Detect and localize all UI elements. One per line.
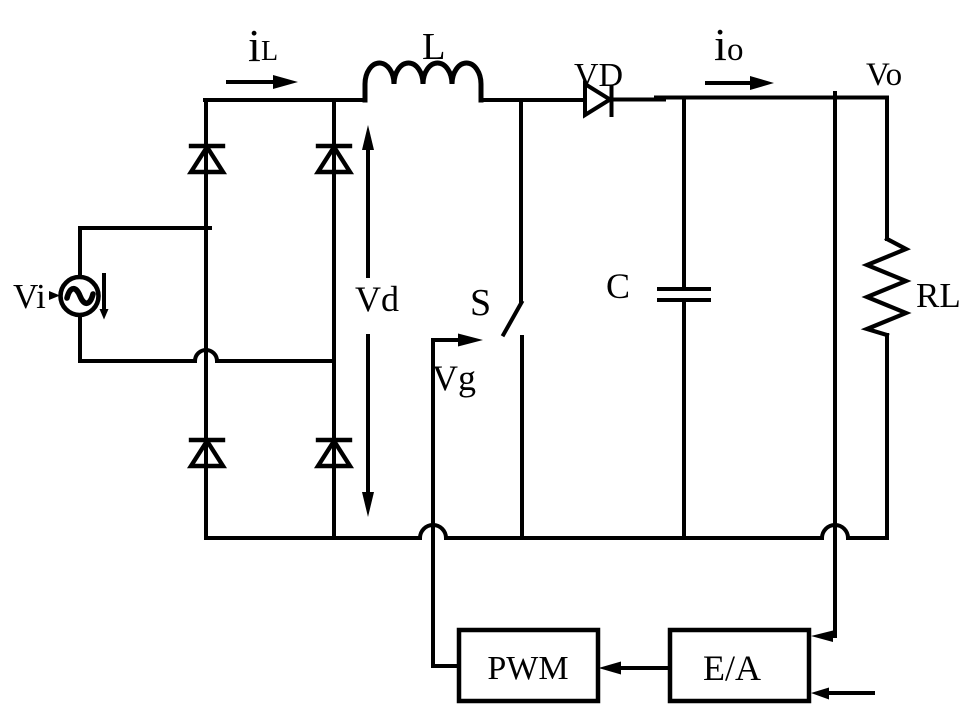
wire feedback from Vo node	[832, 93, 835, 636]
svg-text:VD: VD	[574, 57, 623, 94]
ac source Vi	[61, 277, 99, 315]
voltage arrow Vd shaft upper	[366, 146, 370, 276]
wire left bridge leg	[204, 100, 208, 538]
voltage arrow Vd shaft lower	[366, 336, 370, 497]
diode VD	[585, 84, 610, 115]
wire reference input arrow head	[811, 688, 829, 700]
diode D1	[191, 144, 223, 148]
svg-text:i: i	[714, 19, 727, 70]
current arrow iL shaft	[228, 80, 276, 84]
wire rail inductor to diode	[482, 98, 585, 102]
voltage arrow Vd head down	[362, 492, 374, 517]
resistor RL	[867, 239, 906, 335]
diode D4	[318, 438, 350, 442]
svg-text:PWM: PWM	[487, 650, 568, 687]
svg-text:L: L	[261, 36, 278, 67]
wire E/A to PWM arrow head	[599, 662, 622, 675]
svg-text:RL: RL	[916, 276, 961, 315]
svg-text:Vg: Vg	[432, 358, 476, 398]
block E/A	[670, 630, 809, 701]
current arrow io shaft	[707, 81, 753, 85]
ac source current arrow head	[100, 309, 109, 320]
wire feedback arrow head	[811, 631, 833, 643]
svg-text:C: C	[606, 266, 630, 306]
current arrow iL head	[273, 75, 298, 89]
voltage arrow Vd head up	[362, 125, 374, 150]
inductor L	[365, 63, 481, 100]
wire source bottom with hop	[80, 316, 334, 361]
svg-text:Vo: Vo	[866, 57, 902, 93]
ac source terminal pointer	[49, 291, 60, 300]
wire right bridge leg	[332, 100, 336, 538]
wire E/A to PWM arrow shaft	[620, 666, 670, 670]
svg-text:S: S	[470, 282, 491, 324]
wire right leg lower	[885, 335, 889, 538]
current arrow io head	[750, 76, 774, 90]
svg-text:Vi: Vi	[13, 277, 46, 316]
wire bottom rail with hops	[206, 525, 887, 538]
wire PWM to gate	[433, 340, 460, 666]
svg-text:L: L	[422, 26, 446, 68]
diode D2	[318, 144, 350, 148]
switch S	[519, 100, 523, 301]
gate arrow Vg head	[458, 334, 483, 347]
wire top rail right	[612, 98, 664, 102]
svg-text:Vd: Vd	[355, 279, 399, 319]
wire right leg upper	[885, 98, 889, 240]
ac source current arrow shaft	[102, 275, 106, 311]
svg-text:i: i	[248, 20, 261, 71]
diode D3	[191, 438, 223, 442]
wire reference input arrow shaft	[828, 691, 873, 695]
svg-text:o: o	[727, 32, 744, 68]
svg-text:E/A: E/A	[703, 648, 761, 688]
wire source top	[80, 228, 210, 276]
block PWM	[459, 630, 598, 701]
wire top rail left	[205, 98, 362, 102]
capacitor C	[682, 98, 686, 288]
